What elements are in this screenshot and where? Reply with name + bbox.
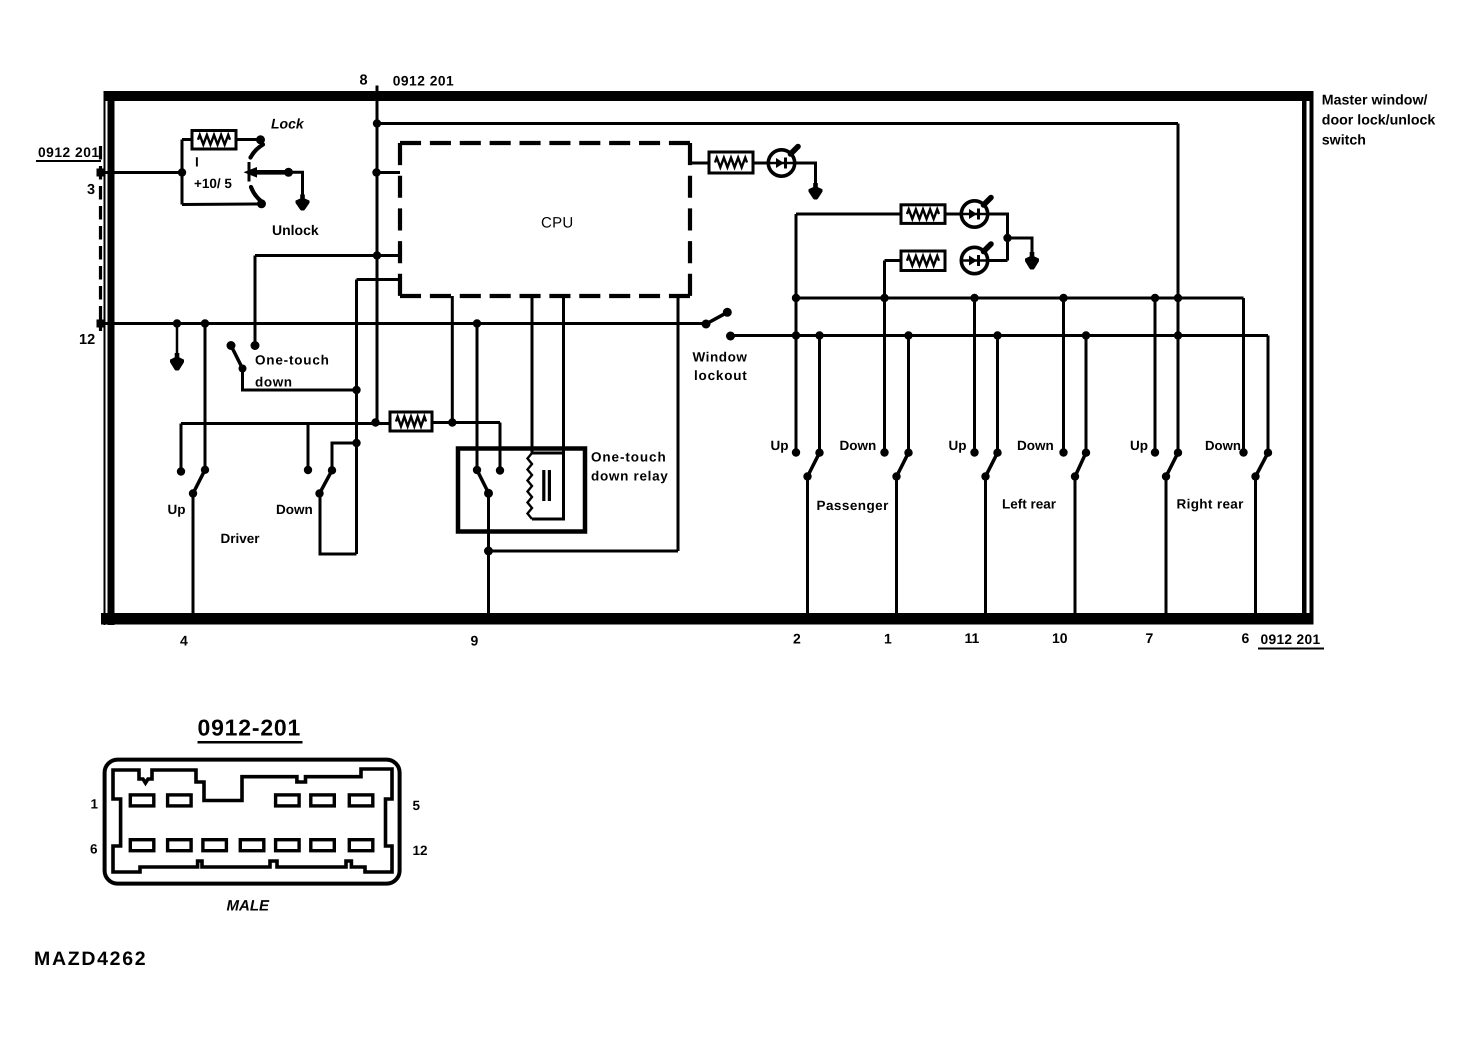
contact: one-touch down (moving end) bbox=[239, 365, 247, 373]
svg-text:Right rear: Right rear bbox=[1177, 497, 1245, 512]
contact: Unlock bbox=[257, 199, 266, 208]
wire: LED A feed horizontal bbox=[796, 213, 901, 216]
contact: driver down (fixed) bbox=[328, 466, 336, 474]
junction: right-rear up output bbox=[1162, 472, 1170, 480]
svg-text:down relay: down relay bbox=[591, 469, 669, 484]
resistor R2 (illumination) bbox=[709, 152, 753, 173]
svg-text:6: 6 bbox=[90, 842, 98, 857]
wire: left-rear up right stub bbox=[996, 336, 999, 451]
contact: left-rear up (open) bbox=[970, 448, 978, 456]
junction: driver-down contact stub bbox=[352, 439, 360, 447]
wire: one-touch output bbox=[243, 369, 357, 391]
junction: pin8 vertical joins resistor R5 lead bbox=[371, 418, 379, 426]
connector pin slot (bottom row) bbox=[130, 840, 154, 851]
svg-text:8: 8 bbox=[360, 73, 368, 89]
relay coil L1 (winding zigzag) bbox=[528, 453, 533, 519]
wire: R2 to LED1 bbox=[753, 162, 769, 165]
junction: lockout bus x=796 bbox=[792, 331, 800, 339]
wire: LED3 output riser bbox=[1006, 238, 1009, 261]
svg-text:Left rear: Left rear bbox=[1002, 497, 1057, 512]
wire: x356 vertical net bbox=[355, 280, 358, 555]
connector pin slot (bottom row) bbox=[203, 840, 227, 851]
wire: pin 9 drop bbox=[487, 551, 490, 613]
border: right edge outer line bbox=[1310, 91, 1314, 625]
wiper: common contact bar bbox=[248, 162, 251, 182]
wire: LED B feed vertical x884 bbox=[883, 261, 886, 451]
border: left edge (thick line) bbox=[108, 91, 115, 625]
svg-text:3: 3 bbox=[87, 182, 95, 198]
wire: CPU right pin to R2 bbox=[690, 162, 710, 165]
wiper: arrow head bbox=[244, 167, 258, 178]
wire: LED A feed vertical x796 bbox=[795, 214, 798, 450]
wire: LED2 output bbox=[988, 214, 1008, 238]
junction: pin3 wire / switch branch bbox=[178, 168, 186, 176]
svg-text:One-touch: One-touch bbox=[591, 450, 667, 465]
wire: top rail to right column bbox=[377, 122, 1178, 125]
border: left edge (thin outer line) bbox=[104, 91, 106, 625]
connector pin slot (bottom row) bbox=[349, 840, 373, 851]
junction: upper bus x=1155 bbox=[1151, 294, 1159, 302]
svg-text:12: 12 bbox=[413, 843, 428, 858]
svg-text:door lock/unlock: door lock/unlock bbox=[1322, 113, 1436, 129]
ground arrow (LED D1) bbox=[814, 163, 817, 186]
junction: passenger down output bbox=[892, 472, 900, 480]
junction: pin8 wire / CPU left pin 1 bbox=[372, 168, 380, 176]
ground arrow (lock switch common) bbox=[301, 172, 304, 197]
contact: passenger down (fixed) bbox=[904, 449, 912, 457]
junction: lockout bus x=997.5 bbox=[993, 331, 1001, 339]
wire: upper bus drop to RR down contact bbox=[1242, 298, 1245, 450]
wire: left-rear up output to pin bbox=[984, 477, 987, 614]
contact: right-rear down (fixed) bbox=[1264, 449, 1272, 457]
wire: relay common down bbox=[487, 493, 490, 551]
wire: CPU bottom pin D vertical bbox=[677, 296, 680, 551]
connector boundary dashed line (left) bbox=[99, 146, 102, 331]
svg-text:0912 201: 0912 201 bbox=[38, 145, 100, 160]
junction: CPU pin / R5 output bbox=[448, 418, 456, 426]
junction: lockout bus x=908.5 bbox=[904, 331, 912, 339]
rotary switch travel arc (lower) bbox=[251, 187, 262, 202]
wire: right-rear up left stub bbox=[1154, 298, 1157, 450]
connector pin slot (top row) bbox=[349, 795, 373, 806]
switch blade: driver down bbox=[320, 470, 333, 493]
junction: one-touch output joins x356 bbox=[352, 386, 360, 394]
contact: right-rear down (open) bbox=[1239, 448, 1247, 456]
junction: wiper node bbox=[284, 168, 293, 177]
connector pin slot (top row) bbox=[130, 795, 154, 806]
svg-text:6: 6 bbox=[1242, 630, 1250, 646]
svg-text:1: 1 bbox=[91, 797, 99, 812]
wire: driver up left stub bbox=[180, 424, 183, 470]
junction: right-rear down output bbox=[1251, 472, 1259, 480]
wire: passenger up output to pin bbox=[806, 477, 809, 614]
connector outer shell bbox=[105, 760, 400, 884]
wire: right-rear down output to pin bbox=[1254, 477, 1257, 614]
rotary switch travel arc (upper) bbox=[251, 145, 264, 158]
svg-text:0912 201: 0912 201 bbox=[393, 74, 455, 89]
resistor R3 (passenger illumination) bbox=[901, 205, 945, 224]
junction: LED outputs bbox=[1003, 234, 1011, 242]
svg-text:Down: Down bbox=[840, 438, 877, 453]
svg-text:7: 7 bbox=[1146, 630, 1154, 646]
connector pin slot (top row) bbox=[168, 795, 192, 806]
resistor R5 (one-touch) bbox=[390, 412, 432, 431]
relay coil L1 (frame) bbox=[532, 453, 564, 519]
svg-text:Unlock: Unlock bbox=[272, 222, 319, 238]
junction: driver up output bbox=[189, 489, 197, 497]
wire: R4 left lead bbox=[885, 259, 902, 262]
contact: left-rear up (fixed) bbox=[993, 449, 1001, 457]
resistor R4 (rear illumination) bbox=[901, 251, 945, 271]
contact: left-rear down (fixed) bbox=[1082, 449, 1090, 457]
wire: relay common horizontal bbox=[489, 550, 679, 553]
wire: to resistor R1 bbox=[182, 138, 193, 141]
wire: LED junction to ground arrow bbox=[1008, 238, 1033, 253]
svg-text:10: 10 bbox=[1052, 630, 1068, 646]
junction: driver down output bbox=[315, 489, 323, 497]
svg-text:Driver: Driver bbox=[221, 531, 261, 546]
junction: left-rear up output bbox=[981, 472, 989, 480]
wire: pin 8 vertical bbox=[376, 86, 379, 423]
contact: relay (right, open) bbox=[496, 466, 504, 474]
wire: relay contact feed vertical bbox=[476, 324, 479, 468]
junction: lockout bus x=1178 bbox=[1174, 331, 1182, 339]
contact: left-rear down (open) bbox=[1059, 448, 1067, 456]
contact: right-rear up (open) bbox=[1151, 448, 1159, 456]
wire: driver feed horizontal bbox=[181, 422, 390, 425]
connector pin slot (top row) bbox=[276, 795, 300, 806]
wire: passenger down output to pin bbox=[895, 477, 898, 614]
svg-text:+10/ 5: +10/ 5 bbox=[194, 176, 232, 191]
wire: wiper node to ground arrow bbox=[289, 172, 303, 196]
wire: LED3 output bbox=[988, 259, 1008, 262]
svg-text:Master window/: Master window/ bbox=[1322, 93, 1428, 109]
relay core bars bbox=[542, 470, 545, 501]
wire: stub to driver-down contact bbox=[332, 443, 357, 468]
contact: driver up (open) bbox=[177, 467, 185, 475]
svg-text:Up: Up bbox=[1130, 438, 1148, 453]
border: right edge inner line bbox=[1302, 91, 1307, 625]
switch blade: window lockout bbox=[706, 313, 727, 324]
svg-text:Window: Window bbox=[693, 350, 748, 365]
wire: passenger down right stub bbox=[907, 336, 910, 451]
svg-text:down: down bbox=[255, 375, 293, 390]
wire: left-rear up left stub bbox=[973, 298, 976, 450]
junction: relay contact branch bbox=[473, 319, 481, 327]
svg-text:Passenger: Passenger bbox=[817, 498, 890, 513]
wire: lock switch left branch vertical bbox=[181, 140, 184, 205]
connector pin slot (bottom row) bbox=[240, 840, 263, 851]
wire: wiper tail bbox=[255, 170, 289, 175]
switch blade: left-rear up bbox=[986, 453, 998, 477]
wire: upper bus (window feed) bbox=[796, 297, 1244, 300]
junction: upper bus x=1178 bbox=[1174, 294, 1182, 302]
svg-text:MALE: MALE bbox=[227, 898, 270, 915]
wire: CPU bottom pin C to coil bbox=[562, 296, 565, 453]
wire: one-touch feed to CPU left pin 2 bbox=[255, 254, 400, 257]
switch blade: right-rear down bbox=[1256, 453, 1269, 477]
LED D1 (illumination) bbox=[768, 150, 794, 176]
switch blade: one-touch down bbox=[231, 346, 243, 369]
contact: window lockout (common) bbox=[702, 320, 711, 329]
switch blade: left-rear down bbox=[1075, 453, 1086, 477]
junction: upper bus x=884.5 bbox=[880, 294, 888, 302]
svg-text:9: 9 bbox=[471, 633, 479, 649]
svg-text:CPU: CPU bbox=[541, 215, 574, 232]
svg-text:One-touch: One-touch bbox=[255, 353, 330, 368]
switch blade: right-rear up bbox=[1166, 453, 1178, 477]
svg-text:Down: Down bbox=[276, 502, 313, 517]
junction: driver up branch bbox=[201, 319, 209, 327]
connector pin slot (top row) bbox=[311, 795, 335, 806]
junction: upper bus x=796 bbox=[792, 294, 800, 302]
junction: lockout bus x=819.5 bbox=[815, 331, 823, 339]
svg-text:2: 2 bbox=[793, 631, 801, 647]
svg-text:0912 201: 0912 201 bbox=[1261, 632, 1321, 647]
wire: bottom branch to Unlock contact bbox=[182, 203, 258, 207]
junction: pin8/top rail bbox=[373, 119, 381, 127]
junction: relay output / pin 9 bbox=[484, 547, 493, 556]
wire: x356 bottom U to driver-down blade output bbox=[320, 494, 357, 554]
switch blade: passenger up bbox=[808, 453, 820, 477]
svg-text:MAZD4262: MAZD4262 bbox=[34, 948, 147, 970]
wire: driver up output to pin 4 bbox=[192, 494, 195, 614]
wire: left-rear down right stub bbox=[1085, 336, 1088, 451]
one-touch down relay K1 (box) bbox=[458, 449, 585, 532]
wire: pin 12 bus bbox=[101, 322, 706, 325]
svg-text:Down: Down bbox=[1017, 438, 1054, 453]
contact: driver down (open) bbox=[304, 466, 312, 474]
wire: right-rear up output to pin bbox=[1165, 477, 1168, 614]
svg-text:Lock: Lock bbox=[271, 116, 305, 132]
svg-text:1: 1 bbox=[884, 631, 892, 647]
svg-text:Up: Up bbox=[949, 438, 967, 453]
contact: one-touch down (fixed) bbox=[251, 341, 260, 350]
svg-text:12: 12 bbox=[79, 332, 95, 348]
wire: CPU bottom pin B to coil bbox=[531, 296, 534, 453]
wire: driver up switch feed bbox=[204, 324, 207, 468]
junction: pin8 wire / one-touch feed bbox=[373, 251, 381, 259]
contact: passenger down (open) bbox=[880, 448, 888, 456]
wire: R3 to LED2 bbox=[945, 213, 961, 216]
connector pin slot (bottom row) bbox=[168, 840, 192, 851]
LED D3 bbox=[961, 247, 987, 273]
wire: driver down left stub bbox=[307, 424, 310, 468]
connector pin slot (bottom row) bbox=[311, 840, 335, 851]
ground arrow (pin 12 bus) bbox=[176, 324, 179, 357]
switch blade: relay bbox=[477, 470, 489, 493]
LED D2 bbox=[961, 201, 987, 227]
svg-text:0912-201: 0912-201 bbox=[198, 715, 302, 741]
svg-text:switch: switch bbox=[1322, 133, 1366, 149]
contact: passenger up (fixed) bbox=[815, 449, 823, 457]
svg-text:5: 5 bbox=[413, 798, 421, 813]
wire: R5 to relay contact corner bbox=[432, 421, 500, 424]
wire: CPU left pin 3 stub bbox=[357, 278, 401, 281]
switch blade: passenger down bbox=[897, 453, 909, 477]
junction: passenger up output bbox=[803, 472, 811, 480]
connector pin slot (bottom row) bbox=[276, 840, 300, 851]
svg-text:11: 11 bbox=[965, 630, 980, 646]
contact: right-rear up (fixed) bbox=[1174, 449, 1182, 457]
contact: relay (left, fixed) bbox=[473, 466, 481, 474]
wire: passenger up right stub bbox=[818, 336, 821, 451]
wire: stub to CPU left pin 1 bbox=[377, 171, 401, 174]
svg-text:Down: Down bbox=[1205, 438, 1241, 453]
switch blade: driver up bbox=[193, 470, 205, 494]
wire: right-rear up right stub bbox=[1177, 336, 1180, 451]
wire: lockout bus bbox=[731, 334, 1269, 337]
wire: corner down to relay contact bbox=[499, 423, 502, 469]
wire: LED1 to ground arrow bbox=[795, 163, 816, 185]
contact: passenger up (open) bbox=[792, 448, 800, 456]
junction: ground branch bbox=[173, 319, 181, 327]
wire: R1 to Lock contact bbox=[236, 138, 258, 141]
contact: Lock bbox=[256, 135, 265, 144]
border: top edge of switch assembly box bbox=[104, 91, 1314, 101]
svg-text:Up: Up bbox=[168, 502, 186, 517]
svg-text:I: I bbox=[195, 155, 199, 170]
pin 12 terminal bump bbox=[97, 320, 106, 328]
wire: right column vertical down to lockout bus bbox=[1177, 124, 1180, 336]
junction: upper bus x=974.5 bbox=[970, 294, 978, 302]
wire: CPU bottom pin A vertical bbox=[451, 296, 454, 423]
ground arrow (LED D2/D3) bbox=[1031, 238, 1034, 255]
wire: left-rear down left stub bbox=[1062, 298, 1065, 450]
wire: left-rear down output to pin bbox=[1074, 477, 1077, 614]
junction: upper bus x=1063.5 bbox=[1059, 294, 1067, 302]
wire: one-touch switch feed vertical bbox=[254, 256, 257, 343]
connector inner body outline bbox=[113, 769, 392, 872]
junction: left-rear down output bbox=[1071, 472, 1079, 480]
junction: lockout bus x=1086 bbox=[1082, 331, 1090, 339]
CPU U1 (dashed box) bbox=[400, 141, 690, 145]
wire: pin 3 to lock/unlock switch bbox=[101, 171, 182, 174]
contact: driver up (fixed) bbox=[201, 466, 209, 474]
contact: window lockout (open) bbox=[726, 332, 735, 341]
border: bottom edge bbox=[101, 613, 1314, 625]
svg-text:lockout: lockout bbox=[694, 368, 748, 383]
svg-text:Up: Up bbox=[771, 438, 789, 453]
wire: lockout bus drop to RR down blade bbox=[1267, 336, 1270, 451]
resistor R1 (lock circuit) bbox=[192, 131, 236, 150]
svg-text:4: 4 bbox=[180, 633, 188, 649]
pin 3 terminal bump bbox=[97, 169, 106, 177]
